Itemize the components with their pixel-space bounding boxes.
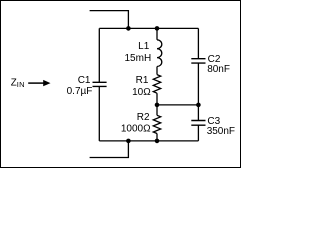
svg-text:L1: L1	[138, 41, 150, 52]
svg-text:350nF: 350nF	[207, 126, 235, 137]
svg-text:10Ω: 10Ω	[132, 87, 151, 98]
svg-text:1000Ω: 1000Ω	[121, 123, 151, 134]
svg-text:80nF: 80nF	[207, 64, 230, 75]
svg-text:R2: R2	[137, 112, 150, 123]
svg-text:R1: R1	[136, 75, 149, 86]
svg-text:IN: IN	[17, 80, 25, 89]
svg-text:C3: C3	[207, 116, 220, 127]
svg-text:0.7µF: 0.7µF	[67, 86, 93, 97]
svg-text:C1: C1	[78, 75, 91, 86]
svg-text:15mH: 15mH	[125, 53, 152, 64]
